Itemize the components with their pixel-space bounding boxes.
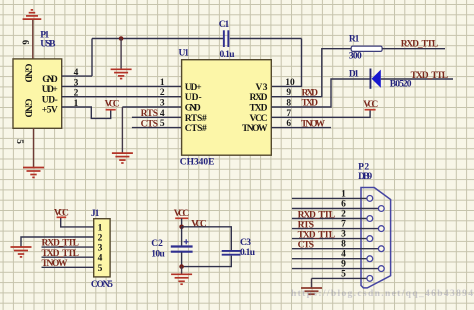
svg-text:2: 2	[160, 88, 165, 98]
svg-text:RTS: RTS	[298, 220, 315, 230]
wire U1 pin7 to VCC	[271, 110, 370, 117]
power VCC (J1)	[54, 209, 69, 219]
wire C2-C3 top	[182, 227, 232, 250]
wire J1 pin2 to ground	[21, 237, 94, 247]
svg-text:UD+: UD+	[42, 85, 58, 95]
wire C2 bottom stem	[181, 252, 183, 266]
ground (below U1 GND)	[112, 153, 133, 163]
wire P1 pin 6 stem	[32, 20, 34, 59]
wire P2 pin3	[292, 238, 367, 240]
svg-text:TXD: TXD	[250, 104, 268, 114]
svg-text:GND: GND	[22, 99, 32, 118]
connector P1	[13, 59, 62, 128]
svg-text:UD-: UD-	[185, 93, 202, 103]
svg-text:TNOW: TNOW	[242, 124, 268, 134]
wire R1 to RXD_TTL	[382, 48, 445, 50]
wire P2 pin2	[292, 218, 367, 220]
wire top horizontal left of C1	[92, 38, 223, 40]
svg-text:USB: USB	[40, 39, 56, 49]
svg-text:10u: 10u	[151, 250, 165, 260]
ground (below P1)	[23, 168, 44, 178]
wire U1 pin8 TXD to D1	[271, 79, 370, 107]
wire to ground (C2)	[181, 267, 183, 274]
svg-text:6: 6	[20, 40, 30, 45]
wire C2 top stem	[181, 227, 183, 246]
svg-text:RTS#: RTS#	[185, 114, 207, 124]
svg-text:0.1u: 0.1u	[220, 50, 236, 60]
svg-text:GND: GND	[22, 64, 32, 83]
wire P2 pin6	[292, 208, 378, 210]
wire riser x92	[91, 39, 93, 77]
svg-text:VCC: VCC	[105, 99, 120, 109]
svg-text:C1: C1	[219, 20, 230, 30]
svg-text:9: 9	[341, 260, 346, 270]
svg-text:RXD: RXD	[302, 88, 319, 98]
wire P2 pin1	[292, 197, 367, 199]
svg-text:TXD_TTL: TXD_TTL	[411, 71, 449, 81]
svg-text:TXD_TTL: TXD_TTL	[42, 249, 80, 259]
svg-text:UD+: UD+	[185, 83, 202, 93]
svg-text:2: 2	[341, 210, 346, 220]
wire P2 pin7	[292, 228, 378, 230]
wire UD- row	[62, 96, 182, 98]
wire +5V jog to VCC	[62, 107, 111, 118]
wire RTS stub	[132, 116, 182, 118]
junction	[119, 36, 124, 41]
wire P2 pin5 to ground	[311, 278, 313, 287]
ground (J1)	[11, 247, 32, 257]
svg-text:TNOW: TNOW	[42, 259, 69, 269]
svg-text:D1: D1	[349, 70, 359, 80]
svg-text:7: 7	[341, 220, 346, 230]
svg-text:1: 1	[341, 189, 346, 199]
svg-text:VCC: VCC	[363, 100, 378, 110]
svg-text:5: 5	[98, 264, 103, 274]
svg-text:5: 5	[160, 119, 165, 129]
svg-text:RXD_TTL: RXD_TTL	[42, 239, 80, 249]
svg-text:5: 5	[14, 139, 24, 144]
svg-text:UD-: UD-	[42, 95, 58, 105]
svg-text:RXD: RXD	[250, 93, 268, 103]
wire P1 pin 5 stem	[33, 128, 35, 167]
svg-text:U1: U1	[179, 49, 190, 59]
svg-text:RTS: RTS	[141, 109, 159, 119]
svg-text:https://blog.csdn.net/qq_46b43: https://blog.csdn.net/qq_46b43894	[291, 289, 473, 299]
svg-text:CTS#: CTS#	[185, 124, 207, 134]
svg-text:GND: GND	[42, 75, 58, 85]
svg-text:1: 1	[160, 78, 165, 88]
ground (mid top)	[111, 69, 132, 78]
connector P2 DB9 body	[361, 188, 391, 288]
wire U1 pin6 TNOW stub	[271, 127, 331, 129]
svg-text:10: 10	[285, 78, 295, 88]
svg-text:R1: R1	[349, 35, 360, 45]
svg-text:TXD: TXD	[302, 99, 319, 109]
junction (C2 bottom)	[179, 264, 184, 269]
svg-text:VCC: VCC	[250, 114, 268, 124]
svg-text:TNOW: TNOW	[301, 119, 326, 129]
P2 pin circles	[367, 196, 384, 282]
wire J1 pin5 stub	[42, 266, 94, 268]
svg-text:CTS: CTS	[298, 241, 315, 251]
wire U1 GND row	[122, 106, 181, 108]
svg-text:CH340E: CH340E	[180, 158, 215, 168]
power VCC (near P1)	[105, 99, 120, 109]
svg-text:TXD_TTL: TXD_TTL	[298, 230, 336, 240]
svg-text:5: 5	[341, 269, 346, 279]
svg-text:CON5: CON5	[91, 280, 113, 290]
wire mid ground stem	[120, 39, 122, 69]
svg-text:1: 1	[98, 223, 103, 233]
svg-text:+5V: +5V	[42, 106, 58, 116]
svg-text:0.1u: 0.1u	[240, 248, 256, 258]
svg-text:J1: J1	[91, 209, 100, 219]
svg-text:3: 3	[341, 230, 346, 240]
ground (top-left, inverted, P1 pin 6)	[23, 10, 42, 19]
wire P2 pin4	[292, 258, 367, 260]
svg-text:8: 8	[341, 240, 346, 250]
capacitor C1	[223, 30, 229, 47]
wire J1 pin4 stub	[42, 256, 94, 258]
power VCC (U1 pin7)	[363, 100, 378, 110]
wire P2 pin8	[292, 248, 378, 250]
wire D1 to TXD_TTL	[381, 78, 453, 80]
wire J1 pin3 stub	[42, 246, 94, 248]
wire GND drop	[121, 107, 123, 153]
wire P1.4 GND to riser	[62, 75, 92, 77]
svg-text:B0520: B0520	[390, 79, 412, 89]
svg-text:RXD_TTL: RXD_TTL	[401, 40, 439, 50]
capacitor C2 (polarized)	[171, 239, 193, 251]
diode D1 B0520	[370, 69, 381, 89]
svg-text:300: 300	[349, 52, 362, 62]
svg-text:6: 6	[341, 200, 346, 210]
wire UD+ row	[62, 85, 182, 87]
svg-text:VCC: VCC	[191, 219, 207, 229]
svg-text:4: 4	[160, 109, 165, 119]
svg-text:VCC: VCC	[54, 209, 69, 219]
wire P2 pin9	[292, 268, 378, 270]
svg-text:RXD_TTL: RXD_TTL	[298, 210, 336, 220]
ground (P2)	[301, 288, 322, 294]
svg-text:CTS: CTS	[141, 119, 159, 129]
svg-text:2: 2	[98, 234, 103, 244]
IC U1 CH340E	[182, 60, 272, 156]
svg-text:V3: V3	[256, 83, 268, 93]
svg-text:C2: C2	[151, 239, 163, 249]
wire top horizontal right of C1	[230, 38, 302, 40]
svg-text:3: 3	[160, 99, 165, 109]
connector J1 CON5	[94, 219, 110, 277]
capacitor C3	[222, 251, 241, 255]
svg-text:4: 4	[341, 250, 346, 260]
wire riser to U1 pin 10	[271, 39, 301, 87]
wire CTS stub	[132, 127, 182, 129]
wire J1 pin1 to VCC	[61, 218, 94, 227]
wire VCC stem to junction	[181, 218, 183, 227]
svg-text:C3: C3	[240, 238, 251, 248]
svg-text:DB9: DB9	[358, 172, 372, 182]
junction (C2 top)	[179, 225, 184, 230]
svg-text:GND: GND	[185, 104, 201, 114]
svg-text:3: 3	[98, 244, 103, 254]
svg-text:VCC: VCC	[174, 209, 190, 219]
wire C3 bottom	[182, 256, 232, 267]
resistor R1	[351, 46, 382, 51]
power VCC (C2 top)	[174, 209, 190, 219]
wire U1 pin9 RXD to R1	[271, 49, 351, 97]
ground (C2)	[171, 274, 192, 284]
svg-text:4: 4	[98, 254, 103, 264]
wire P2 pin5	[312, 277, 367, 279]
